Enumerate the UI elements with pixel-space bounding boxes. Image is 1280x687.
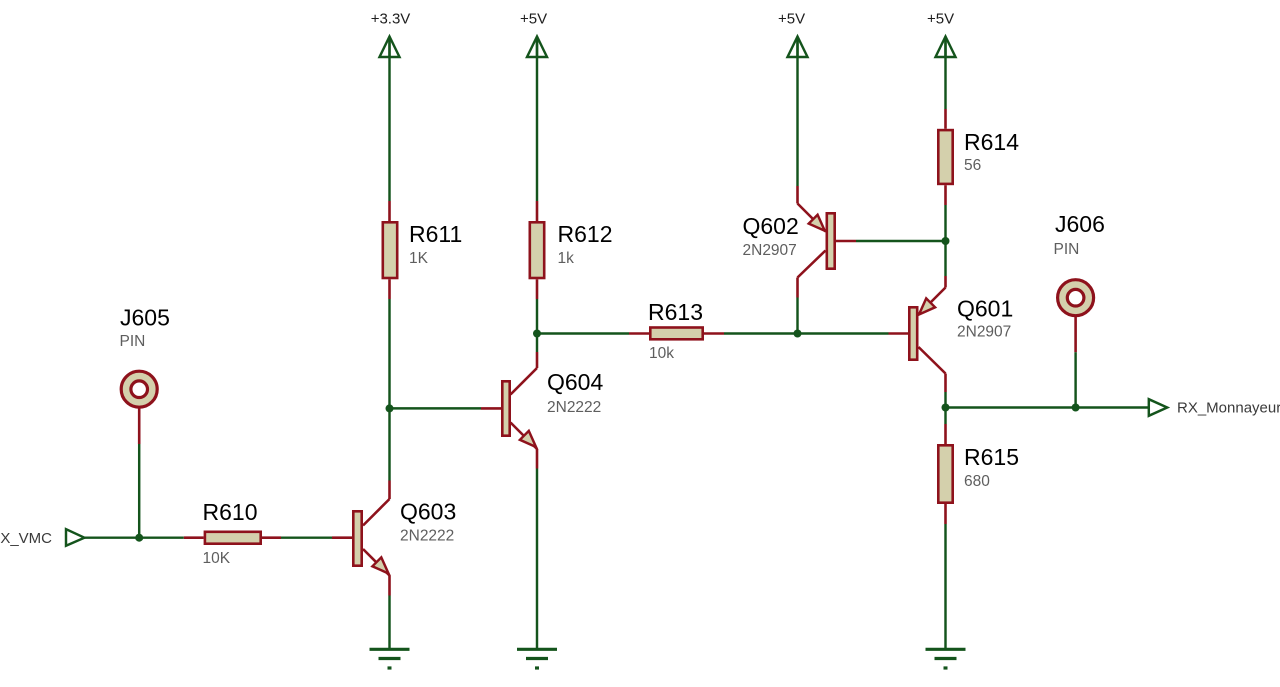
wire R615 to ground bbox=[944, 524, 946, 649]
terminal RX_VMC bbox=[66, 529, 84, 546]
power +5V symbol (rail B) bbox=[527, 37, 547, 58]
wire Q604 emitter to ground bbox=[536, 469, 538, 650]
node B bbox=[533, 330, 541, 338]
svg-text:R615: R615 bbox=[964, 444, 1019, 470]
svg-text:10K: 10K bbox=[203, 550, 231, 567]
wire +5V rail to R612 bbox=[536, 37, 538, 202]
wire node D to Q601 emitter bbox=[944, 241, 946, 276]
wire R614 to node D bbox=[944, 205, 946, 241]
node G bbox=[135, 534, 143, 542]
svg-text:1k: 1k bbox=[558, 250, 575, 267]
svg-text:R610: R610 bbox=[203, 499, 258, 525]
resistor R615 bbox=[938, 408, 1019, 525]
svg-text:1K: 1K bbox=[409, 250, 429, 267]
resistor R610 bbox=[184, 499, 281, 567]
transistor Q603 bbox=[332, 481, 456, 596]
resistor R612 bbox=[530, 201, 613, 299]
resistor R614 bbox=[938, 109, 1019, 205]
power +3.3V symbol bbox=[380, 37, 400, 58]
wire R613 to node C bbox=[724, 332, 798, 334]
svg-text:J606: J606 bbox=[1055, 211, 1105, 237]
svg-text:+5V: +5V bbox=[927, 11, 954, 28]
svg-text:Q601: Q601 bbox=[957, 296, 1013, 322]
svg-text:PIN: PIN bbox=[120, 333, 146, 350]
svg-text:2N2907: 2N2907 bbox=[957, 324, 1011, 341]
transistor Q602 bbox=[743, 186, 857, 298]
wire node A to Q603 collector bbox=[388, 408, 390, 480]
wire J605 to node G bbox=[138, 444, 140, 538]
svg-text:+3.3V: +3.3V bbox=[371, 11, 411, 28]
wire +3.3V rail to R611 bbox=[388, 37, 390, 202]
svg-text:R611: R611 bbox=[409, 221, 462, 247]
svg-text:2N2222: 2N2222 bbox=[547, 399, 601, 416]
node D bbox=[942, 237, 950, 245]
wire J606 to node F bbox=[1074, 352, 1076, 407]
power +5V symbol (rail C) bbox=[788, 37, 808, 58]
connector J606 bbox=[1054, 211, 1105, 352]
svg-text:PIN: PIN bbox=[1054, 241, 1080, 258]
svg-text:Q602: Q602 bbox=[743, 213, 799, 239]
svg-text:680: 680 bbox=[964, 473, 990, 490]
node E bbox=[942, 404, 950, 412]
svg-text:2N2907: 2N2907 bbox=[743, 242, 797, 259]
resistor R611 bbox=[383, 201, 462, 299]
svg-text:+5V: +5V bbox=[520, 11, 547, 28]
node A bbox=[386, 404, 394, 412]
svg-text:R613: R613 bbox=[648, 299, 703, 325]
node C bbox=[794, 330, 802, 338]
svg-text:R614: R614 bbox=[964, 129, 1019, 155]
wire R611 to node A bbox=[388, 299, 390, 408]
wire +5V rail to R614 bbox=[944, 37, 946, 110]
terminal RX_Monnayeur bbox=[1149, 399, 1167, 416]
svg-text:J605: J605 bbox=[120, 305, 170, 331]
ground (under R615) bbox=[926, 649, 966, 668]
svg-text:Q603: Q603 bbox=[400, 499, 456, 525]
wire R612 to node B bbox=[536, 299, 538, 334]
wire Q602 collector to node C bbox=[796, 298, 798, 334]
wire node C to Q601 base bbox=[798, 332, 889, 334]
wire +5V rail to Q602 emitter bbox=[796, 37, 798, 187]
svg-text:RX_VMC: RX_VMC bbox=[0, 530, 52, 547]
wire RX_VMC to node G bbox=[84, 536, 183, 538]
svg-text:+5V: +5V bbox=[778, 11, 805, 28]
svg-text:R612: R612 bbox=[558, 221, 613, 247]
power +5V symbol (rail D) bbox=[936, 37, 956, 58]
svg-text:10k: 10k bbox=[649, 345, 674, 362]
wire node B to R613 bbox=[537, 332, 629, 334]
ground (under Q604) bbox=[517, 649, 557, 668]
svg-text:2N2222: 2N2222 bbox=[400, 528, 454, 545]
wire R610 to Q603 base bbox=[281, 536, 332, 538]
transistor Q604 bbox=[481, 352, 603, 469]
connector J605 bbox=[120, 305, 170, 445]
wire node E to terminal bbox=[946, 406, 1149, 408]
wire Q603 emitter to ground bbox=[388, 596, 390, 650]
wire Q601 collector to node E bbox=[944, 392, 946, 408]
ground (under Q603) bbox=[370, 649, 410, 668]
node F bbox=[1072, 404, 1080, 412]
wire node A to Q604 base bbox=[390, 407, 482, 409]
svg-text:56: 56 bbox=[964, 157, 981, 174]
resistor R613 bbox=[629, 299, 724, 362]
svg-text:RX_Monnayeur: RX_Monnayeur bbox=[1177, 400, 1280, 417]
transistor Q601 bbox=[889, 276, 1014, 392]
wire node B to Q604 collector bbox=[536, 334, 538, 353]
svg-text:Q604: Q604 bbox=[547, 369, 603, 395]
wire Q602 base to node D bbox=[856, 240, 946, 242]
